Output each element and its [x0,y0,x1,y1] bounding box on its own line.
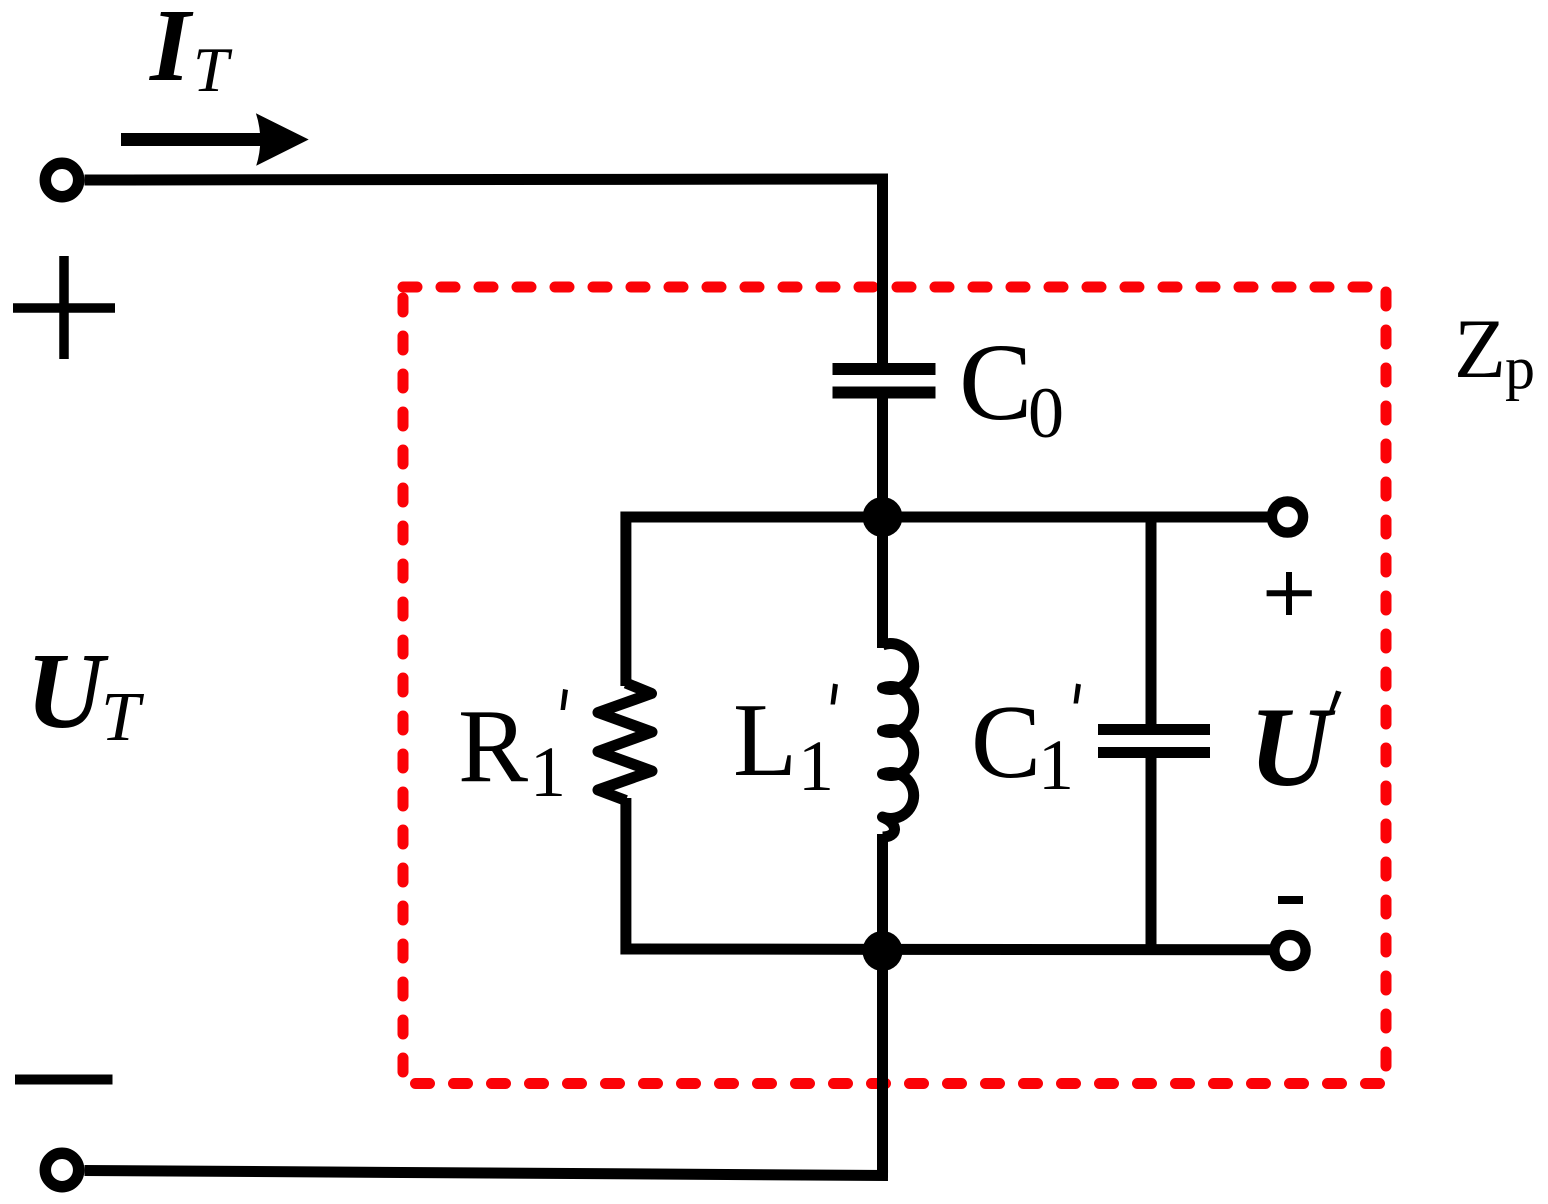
resistor R1' bottom wire [620,798,631,955]
wire center vertical upper (top wire to C0) [877,174,888,370]
label C_1' [971,683,1081,805]
svg-text:L: L [733,681,797,798]
inductor L1' branch: top wire [877,517,888,648]
plus sign left [13,256,115,359]
terminal bottom-left [45,1153,78,1186]
current arrow IT [121,113,309,166]
wire bottom rail of parallel section [621,944,1274,956]
terminal right top [1272,501,1303,532]
svg-text:U: U [26,632,109,751]
svg-text:C: C [971,683,1041,800]
wire top (terminal to center vertical) [85,179,889,180]
svg-text:U: U [1249,685,1336,810]
capacitor C1' branch: top wire [1146,512,1157,730]
svg-text:1: 1 [1038,725,1074,805]
svg-text:T: T [193,34,233,105]
svg-text:T: T [101,679,145,756]
label I_T [148,0,233,105]
label Zp [1454,302,1535,401]
wire top rail of parallel section [621,512,1271,523]
terminal top-left [45,163,78,196]
resistor R1' zigzag [598,683,652,801]
red dashed boundary box Zp [403,287,1386,1084]
wire bottom (terminal to center vertical) [85,1171,889,1176]
label L_1' [733,681,838,806]
label R_1' [458,687,568,812]
node A (top junction) [863,497,903,537]
terminal right bottom [1274,935,1305,966]
svg-text:Z: Z [1454,302,1506,396]
svg-text:1: 1 [530,732,566,812]
svg-text:0: 0 [1028,373,1064,453]
node B (bottom junction) [863,931,903,971]
inductor L1' bottom wire [877,834,888,951]
small minus right [1278,896,1303,904]
label U' [1249,685,1342,810]
minus sign left [15,1075,113,1085]
capacitor C0 [833,369,936,393]
svg-text:R: R [458,687,528,804]
resistor R1' branch: top wire [620,512,631,687]
label U_T [26,632,145,756]
capacitor C1' plates [1098,730,1210,753]
svg-text:1: 1 [798,726,834,806]
label C_0 [959,321,1064,453]
small plus right [1267,572,1312,615]
svg-text:p: p [1505,335,1535,401]
wire node B down to bottom wire [877,951,888,1176]
wire C0 to node A [877,393,888,518]
capacitor C1' bottom wire [1146,753,1157,955]
inductor L1' coil [883,644,914,838]
svg-text:I: I [148,0,194,103]
svg-text:C: C [959,321,1032,443]
